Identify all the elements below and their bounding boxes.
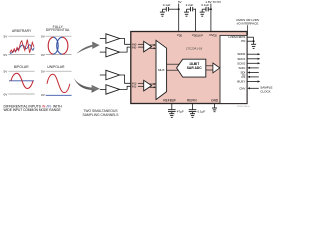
svg-text:CLOCK: CLOCK	[260, 90, 270, 94]
label SAMPLE CLOCK	[260, 85, 272, 93]
svg-text:GND: GND	[211, 99, 219, 103]
IC U1 LTC2341-18 body	[131, 32, 247, 104]
svg-text:0.1µF: 0.1µF	[201, 3, 209, 7]
wire OVDD pin	[210, 4, 212, 32]
wire to C1	[169, 8, 179, 10]
wire to C2	[193, 8, 196, 10]
svg-text:0V: 0V	[41, 53, 46, 57]
svg-text:WIDE INPUT COMMON MODE RANGE: WIDE INPUT COMMON MODE RANGE	[4, 108, 61, 112]
svg-text:DIFFERENTIAL: DIFFERENTIAL	[46, 28, 70, 32]
svg-text:BUSY: BUSY	[237, 80, 245, 84]
ground (C2)	[184, 9, 189, 16]
wire REFBUF to C4	[171, 104, 173, 110]
ground (C5)	[190, 112, 195, 118]
svg-text:5V: 5V	[4, 34, 9, 38]
wire SCKI in	[247, 67, 258, 69]
svg-text:0.1µF: 0.1µF	[198, 110, 206, 114]
wire MUX to ADC	[167, 64, 181, 70]
ADC block 18-BIT SAR ADC	[177, 59, 206, 77]
wire IN0 to internal amp	[138, 44, 145, 47]
multiplexer MUX	[156, 40, 167, 99]
wire SCKO out	[247, 62, 260, 64]
svg-text:UNIPOLAR: UNIPOLAR	[47, 65, 65, 69]
ground (GND pin)	[212, 108, 217, 112]
ground (C3)	[200, 9, 205, 16]
wire CNV in (sample clock)	[247, 87, 258, 89]
I/O interface block	[220, 35, 247, 103]
note two simultaneous sampling channels	[83, 109, 120, 117]
wire internal amp ch0 to MUX	[149, 44, 156, 49]
svg-text:SCKO: SCKO	[237, 61, 246, 65]
wire internal amp ch1 to MUX	[149, 83, 156, 88]
wire SDI in	[247, 71, 258, 73]
svg-text:5V: 5V	[4, 70, 9, 74]
svg-text:REFBUF: REFBUF	[163, 99, 176, 103]
svg-text:SDO1: SDO1	[237, 57, 245, 61]
wire VDDLBYP pin	[194, 9, 196, 32]
swoosh arrow (ch1 input)	[74, 78, 100, 93]
svg-text:5V: 5V	[41, 34, 46, 38]
svg-text:0.1µF: 0.1µF	[163, 3, 171, 7]
op-amp driver A2 (ch0 -)	[100, 47, 131, 57]
wire VDD pin to 5V	[178, 4, 180, 32]
waveform plot FULLY DIFFERENTIAL	[41, 25, 72, 57]
wire PD to ground	[247, 40, 254, 42]
op-amp driver A4 (ch1 -)	[100, 85, 131, 95]
wire junction vertical	[253, 37, 255, 44]
wire GND pin	[214, 104, 216, 109]
svg-text:PD: PD	[241, 39, 245, 43]
svg-text:MUX: MUX	[158, 68, 164, 72]
svg-text:SDO0: SDO0	[237, 52, 245, 56]
capacitor C2 2.2uF	[186, 3, 194, 11]
svg-text:5V: 5V	[41, 70, 46, 74]
svg-text:2.2µF: 2.2µF	[186, 3, 194, 7]
bus arrow ADC to interface	[206, 63, 220, 73]
capacitor C4 47uF	[168, 110, 184, 114]
caption: differential inputs note	[4, 104, 63, 111]
svg-text:REFIN: REFIN	[187, 99, 197, 103]
capacitor C5 0.1uF	[189, 110, 206, 114]
node junction OVDD/C3	[210, 8, 212, 10]
svg-text:SAMPLING CHANNELS: SAMPLING CHANNELS	[83, 113, 120, 117]
wire BUSY out	[247, 80, 260, 82]
pin label CS (overline)	[241, 75, 245, 79]
wire to C3	[208, 8, 211, 10]
svg-text:5V: 5V	[178, 0, 182, 4]
waveform plot BIPOLAR	[4, 65, 35, 96]
node junction VDD/C1	[178, 8, 180, 10]
svg-text:0V: 0V	[41, 93, 46, 97]
svg-text:0V: 0V	[4, 92, 9, 96]
svg-text:CS: CS	[241, 75, 245, 79]
ground (LVDS/PD)	[251, 44, 256, 48]
swoosh arrow (ch0 input)	[76, 42, 99, 54]
wire IN1 to internal amp	[138, 83, 145, 86]
wire CS in	[247, 76, 258, 78]
internal amp ch0	[144, 41, 152, 52]
ground (C4)	[169, 112, 174, 118]
wire SDO0 out	[247, 53, 260, 55]
wire REFIN to C5	[192, 104, 194, 110]
op-amp driver A3 (ch1 +)	[100, 70, 131, 83]
svg-text:CNV: CNV	[239, 86, 245, 90]
capacitor C3 0.1uF	[201, 3, 209, 11]
svg-text:SCKI: SCKI	[239, 66, 246, 70]
svg-text:LTC2341-18: LTC2341-18	[186, 47, 203, 51]
ground (C1)	[160, 9, 165, 16]
internal amp ch1	[144, 80, 152, 91]
svg-text:47µF: 47µF	[177, 110, 184, 114]
svg-text:BIPOLAR: BIPOLAR	[14, 65, 29, 69]
svg-text:SDI: SDI	[240, 71, 245, 75]
svg-text:234118 TA01a: 234118 TA01a	[237, 105, 251, 108]
svg-text:I/O INTERFACE: I/O INTERFACE	[237, 22, 259, 26]
wire SDO1 out	[247, 58, 260, 60]
wire LVDS/CMOS to ground	[247, 36, 254, 38]
svg-text:SAR ADC: SAR ADC	[187, 66, 203, 70]
node junction PD	[253, 40, 255, 42]
waveform plot UNIPOLAR	[41, 65, 72, 97]
svg-text:0V: 0V	[4, 53, 9, 57]
waveform plot ARBITRARY (node: input example)	[4, 29, 35, 57]
op-amp driver A1 (ch0 +)	[100, 34, 131, 45]
note CMOS OR LVDS I/O INTERFACE	[236, 18, 259, 35]
svg-text:ARBITRARY: ARBITRARY	[12, 29, 32, 33]
capacitor C1 0.1uF	[162, 3, 170, 11]
